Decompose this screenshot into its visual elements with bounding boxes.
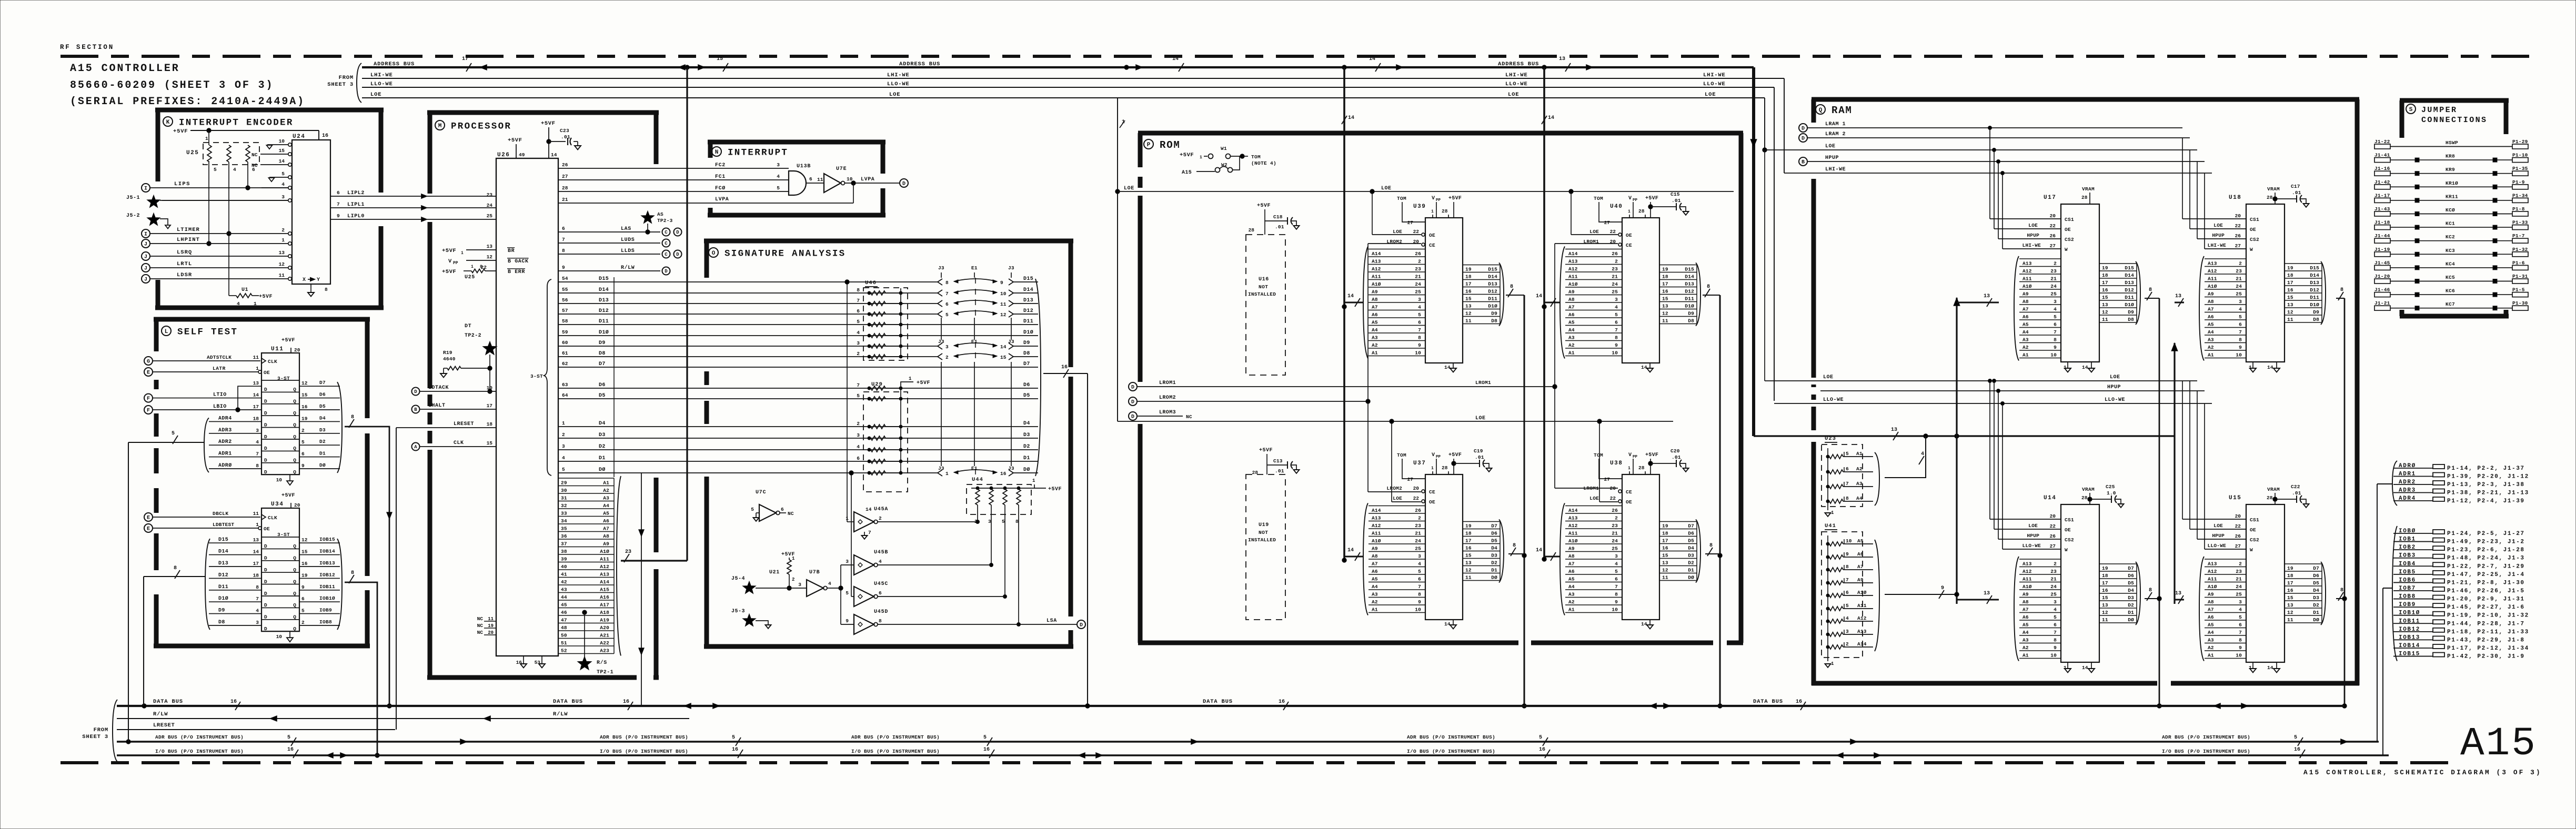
svg-text:12: 12	[2287, 309, 2293, 315]
svg-text:19: 19	[1662, 523, 1668, 529]
svg-text:6: 6	[879, 590, 882, 596]
svg-text:2: 2	[1846, 641, 1849, 647]
svg-text:14: 14	[1444, 365, 1451, 370]
svg-text:19: 19	[2287, 565, 2293, 571]
svg-text:A7: A7	[1857, 564, 1864, 570]
svg-text:A3: A3	[2022, 337, 2029, 342]
svg-text:DØ: DØ	[319, 462, 326, 468]
svg-text:4: 4	[256, 439, 259, 445]
svg-text:2: 2	[792, 577, 794, 582]
svg-text:1: 1	[1200, 155, 1202, 160]
svg-text:Q: Q	[293, 399, 296, 405]
svg-text:U23: U23	[1825, 436, 1836, 442]
svg-text:Q: Q	[293, 446, 296, 451]
svg-text:A14: A14	[1372, 508, 1381, 513]
svg-text:4: 4	[1615, 304, 1618, 310]
svg-text:2: 2	[857, 351, 860, 357]
svg-text:D1: D1	[2128, 610, 2134, 615]
svg-text:11: 11	[488, 616, 494, 622]
svg-text:AS: AS	[657, 211, 663, 217]
svg-text:23: 23	[2236, 569, 2242, 574]
svg-text:19: 19	[2102, 265, 2108, 271]
svg-text:LOE: LOE	[1124, 186, 1134, 191]
svg-text:2: 2	[1418, 258, 1421, 264]
svg-text:C18: C18	[1273, 214, 1283, 220]
svg-text:D7: D7	[599, 361, 606, 367]
svg-text:D11: D11	[2310, 295, 2319, 300]
svg-text:8: 8	[1846, 496, 1849, 501]
svg-text:58: 58	[562, 318, 568, 324]
svg-text:46: 46	[561, 610, 567, 615]
svg-text:TOM: TOM	[1397, 452, 1406, 458]
svg-text:19: 19	[2102, 565, 2108, 571]
svg-text:P1-49, P2-23, J1-2: P1-49, P2-23, J1-2	[2447, 539, 2525, 545]
svg-text:8: 8	[879, 618, 882, 624]
svg-text:28: 28	[1442, 208, 1448, 214]
svg-text:23: 23	[2050, 569, 2057, 574]
svg-text:IOB9: IOB9	[319, 608, 332, 613]
svg-text:8: 8	[1418, 335, 1421, 340]
svg-text:IOB1Ø: IOB1Ø	[319, 595, 335, 601]
svg-text:15: 15	[717, 56, 723, 62]
svg-text:A2: A2	[2022, 645, 2029, 651]
svg-text:22: 22	[2050, 523, 2056, 529]
svg-text:2: 2	[301, 428, 305, 433]
svg-text:3: 3	[857, 340, 860, 346]
svg-text:DØ: DØ	[1023, 467, 1030, 473]
svg-text:3: 3	[846, 559, 849, 564]
svg-text:14: 14	[2267, 365, 2273, 370]
svg-text:D1Ø: D1Ø	[218, 595, 228, 602]
svg-text:8: 8	[351, 414, 354, 420]
svg-text:3: 3	[2054, 599, 2057, 605]
svg-text:L: L	[165, 329, 168, 335]
svg-text:5: 5	[172, 431, 175, 437]
svg-text:TP2-1: TP2-1	[597, 670, 613, 675]
svg-text:6: 6	[1846, 590, 1849, 595]
svg-text:D: D	[665, 269, 668, 274]
svg-text:1: 1	[1431, 209, 1434, 214]
svg-text:A7: A7	[1568, 304, 1575, 310]
svg-text:12: 12	[1465, 311, 1472, 317]
svg-text:16: 16	[2102, 287, 2108, 293]
svg-text:15: 15	[301, 549, 308, 555]
svg-text:7: 7	[868, 530, 871, 535]
svg-text:A12: A12	[600, 564, 609, 570]
svg-text:20: 20	[1413, 486, 1420, 491]
svg-text:ADRØ: ADRØ	[218, 462, 232, 469]
svg-text:D: D	[1131, 385, 1134, 391]
svg-text:23: 23	[1612, 266, 1618, 272]
svg-text:A9: A9	[1372, 545, 1378, 551]
svg-text:A1: A1	[2022, 352, 2029, 358]
svg-text:63: 63	[562, 382, 568, 388]
svg-text:FROM: FROM	[94, 727, 108, 733]
svg-text:14: 14	[866, 507, 872, 512]
svg-text:10: 10	[1612, 606, 1618, 612]
svg-text:D9: D9	[1491, 311, 1497, 317]
svg-text:KR9: KR9	[2446, 167, 2455, 173]
svg-text:20: 20	[1610, 239, 1616, 245]
svg-text:I/O BUS (P/O INSTRUMENT BUS): I/O BUS (P/O INSTRUMENT BUS)	[155, 749, 244, 754]
svg-text:D13: D13	[1023, 298, 1033, 304]
svg-text:13: 13	[1559, 56, 1565, 62]
svg-text:11: 11	[1662, 575, 1668, 581]
svg-text:3: 3	[1846, 629, 1849, 634]
svg-text:P1-43, P2-29, J1-8: P1-43, P2-29, J1-8	[2447, 637, 2525, 643]
svg-text:A1: A1	[2022, 652, 2029, 658]
svg-text:V: V	[448, 258, 452, 265]
svg-text:LRAM 2: LRAM 2	[1825, 132, 1846, 137]
svg-text:D: D	[264, 614, 267, 620]
svg-text:A8: A8	[2208, 599, 2214, 605]
svg-text:2: 2	[2054, 561, 2057, 567]
svg-text:28: 28	[2267, 195, 2273, 200]
svg-text:.01: .01	[2292, 190, 2301, 196]
svg-text:4: 4	[828, 581, 831, 587]
svg-text:D3: D3	[2313, 595, 2319, 601]
svg-text:15: 15	[1662, 553, 1668, 559]
svg-text:LDBTEST: LDBTEST	[213, 522, 234, 528]
svg-text:10: 10	[279, 138, 285, 144]
svg-text:E: E	[147, 370, 150, 376]
svg-text:D8: D8	[1023, 351, 1030, 357]
svg-text:6: 6	[301, 596, 305, 602]
svg-text:7: 7	[857, 298, 860, 304]
svg-text:6: 6	[857, 456, 860, 461]
svg-text:D6: D6	[2128, 573, 2134, 579]
svg-text:+5VF: +5VF	[442, 269, 456, 275]
svg-text:14: 14	[2082, 665, 2088, 671]
svg-text:A11: A11	[600, 557, 609, 562]
svg-text:LOE: LOE	[2028, 523, 2038, 529]
svg-text:E: E	[147, 515, 150, 521]
svg-text:A12: A12	[2208, 268, 2217, 274]
svg-text:11: 11	[279, 272, 285, 278]
svg-text:7: 7	[1418, 584, 1421, 590]
svg-text:A21: A21	[600, 633, 609, 639]
svg-text:I/O BUS (P/O INSTRUMENT BUS): I/O BUS (P/O INSTRUMENT BUS)	[1407, 749, 1495, 754]
svg-text:P1-23, P2-6, J1-28: P1-23, P2-6, J1-28	[2447, 547, 2525, 553]
svg-text:LUDS: LUDS	[621, 237, 635, 243]
svg-text:U24: U24	[293, 134, 305, 140]
svg-text:U45C: U45C	[874, 581, 888, 587]
svg-text:5: 5	[945, 312, 949, 318]
svg-text:D12: D12	[218, 572, 228, 578]
svg-text:D15: D15	[1685, 267, 1694, 272]
svg-text:20: 20	[2050, 513, 2056, 519]
svg-text:D3: D3	[599, 432, 606, 438]
svg-text:22: 22	[2050, 223, 2056, 229]
svg-text:U11: U11	[271, 346, 284, 352]
svg-text:KR1Ø: KR1Ø	[2446, 180, 2458, 186]
svg-text:28: 28	[2267, 495, 2273, 501]
svg-text:U44: U44	[972, 477, 983, 483]
svg-text:26: 26	[1415, 508, 1421, 513]
svg-text:ADR BUS (P/O INSTRUMENT BUS): ADR BUS (P/O INSTRUMENT BUS)	[851, 734, 940, 740]
svg-text:A15: A15	[2460, 721, 2537, 766]
svg-text:D2: D2	[1023, 444, 1030, 450]
svg-text:D1: D1	[319, 451, 326, 457]
svg-text:CS1: CS1	[2250, 517, 2259, 523]
svg-text:D1: D1	[1688, 568, 1694, 573]
svg-text:SELF TEST: SELF TEST	[177, 327, 238, 337]
svg-text:LOE: LOE	[889, 92, 900, 98]
svg-text:R19: R19	[443, 350, 452, 356]
svg-text:A1Ø: A1Ø	[1857, 590, 1867, 595]
svg-text:R/LW: R/LW	[621, 265, 635, 271]
svg-text:14: 14	[1348, 115, 1354, 121]
svg-text:ADR2: ADR2	[218, 439, 232, 445]
svg-text:14: 14	[1369, 56, 1375, 62]
svg-text:NC: NC	[477, 623, 484, 629]
svg-text:14: 14	[1444, 621, 1451, 627]
svg-text:14: 14	[551, 152, 557, 158]
svg-text:A1Ø: A1Ø	[1372, 538, 1381, 544]
svg-text:D8: D8	[1688, 318, 1694, 324]
svg-text:SIGNATURE ANALYSIS: SIGNATURE ANALYSIS	[724, 248, 846, 259]
svg-text:23: 23	[1415, 523, 1421, 529]
svg-text:8: 8	[1015, 519, 1019, 524]
svg-text:A8: A8	[1568, 297, 1575, 302]
svg-text:D: D	[264, 458, 267, 463]
svg-text:27: 27	[1407, 220, 1414, 226]
svg-text:LOE: LOE	[2213, 223, 2223, 228]
svg-text:8: 8	[256, 584, 259, 590]
svg-text:A23: A23	[600, 648, 609, 654]
svg-text:NC: NC	[477, 616, 484, 622]
svg-text:13: 13	[2287, 602, 2293, 608]
svg-text:A5: A5	[1857, 538, 1864, 544]
svg-text:A7: A7	[2022, 306, 2029, 312]
svg-text:LLO-WE: LLO-WE	[1505, 81, 1528, 87]
svg-text:13: 13	[253, 380, 259, 386]
svg-text:CS2: CS2	[2250, 237, 2259, 242]
svg-text:+5VF: +5VF	[1448, 196, 1462, 201]
svg-text:ADR BUS (P/O INSTRUMENT BUS): ADR BUS (P/O INSTRUMENT BUS)	[155, 734, 244, 740]
svg-text:3-ST: 3-ST	[530, 373, 543, 379]
svg-text:LROM1: LROM1	[1583, 239, 1599, 245]
svg-text:LOE: LOE	[1589, 496, 1599, 501]
svg-text:D: D	[264, 591, 267, 597]
svg-text:PP: PP	[1633, 455, 1638, 459]
svg-text:LHI-WE: LHI-WE	[887, 72, 910, 78]
svg-text:38: 38	[561, 549, 567, 554]
svg-text:8: 8	[1418, 591, 1421, 597]
svg-text:25: 25	[2050, 291, 2057, 297]
svg-text:V: V	[1628, 196, 1632, 201]
svg-text:18: 18	[2287, 272, 2293, 278]
svg-text:28: 28	[2081, 195, 2088, 200]
svg-text:15: 15	[2287, 295, 2293, 300]
svg-text:25: 25	[2050, 591, 2057, 597]
svg-text:D15: D15	[2125, 265, 2134, 271]
svg-text:10: 10	[2236, 352, 2242, 358]
svg-text:24: 24	[2050, 284, 2057, 289]
svg-text:4: 4	[1418, 304, 1421, 310]
svg-text:F: F	[147, 396, 150, 402]
svg-text:14: 14	[1548, 115, 1554, 121]
svg-text:CE: CE	[1429, 489, 1435, 495]
svg-text:6: 6	[1418, 319, 1421, 325]
svg-text:D14: D14	[2310, 272, 2319, 278]
svg-text:U7C: U7C	[756, 490, 766, 496]
svg-text:A13: A13	[1568, 515, 1578, 521]
svg-text:INTERRUPT ENCODER: INTERRUPT ENCODER	[179, 117, 294, 128]
svg-text:33: 33	[561, 511, 567, 517]
svg-text:LHPINT: LHPINT	[177, 237, 200, 243]
svg-text:Q: Q	[293, 543, 296, 549]
svg-text:28: 28	[1638, 465, 1645, 471]
svg-text:3: 3	[1418, 297, 1421, 302]
svg-text:D7: D7	[2313, 565, 2319, 571]
svg-text:45: 45	[561, 602, 567, 608]
svg-text:9: 9	[1941, 585, 1944, 591]
svg-text:5: 5	[1539, 735, 1542, 741]
svg-text:Y: Y	[317, 277, 320, 283]
svg-text:8: 8	[2340, 588, 2343, 593]
svg-text:ROM: ROM	[1160, 139, 1181, 151]
svg-text:LOE: LOE	[1393, 496, 1402, 501]
svg-text:D: D	[1131, 400, 1134, 406]
svg-text:W: W	[2250, 247, 2253, 252]
svg-text:LHI-WE: LHI-WE	[1703, 72, 1726, 78]
svg-text:I/O BUS (P/O INSTRUMENT BUS): I/O BUS (P/O INSTRUMENT BUS)	[600, 749, 688, 754]
svg-text:1: 1	[1032, 478, 1035, 483]
svg-text:DATA BUS: DATA BUS	[553, 699, 583, 705]
svg-text:16: 16	[301, 404, 308, 410]
svg-text:16: 16	[2102, 588, 2108, 593]
svg-text:5: 5	[1615, 312, 1618, 318]
svg-text:J5-4: J5-4	[731, 576, 745, 582]
svg-text:A15: A15	[600, 587, 609, 593]
svg-text:A1: A1	[1568, 606, 1575, 612]
svg-text:LHI-WE: LHI-WE	[370, 72, 393, 78]
svg-text:C: C	[665, 252, 668, 257]
svg-text:12: 12	[2287, 610, 2293, 615]
svg-text:12: 12	[301, 537, 308, 543]
svg-text:25: 25	[1612, 545, 1618, 551]
svg-text:16: 16	[1061, 365, 1068, 370]
svg-text:D1: D1	[2313, 610, 2319, 615]
svg-text:6: 6	[1418, 576, 1421, 582]
svg-text:LLDS: LLDS	[621, 248, 635, 254]
svg-text:P1-48, P2-24, J1-3: P1-48, P2-24, J1-3	[2447, 555, 2525, 562]
svg-text:A6: A6	[2022, 314, 2029, 320]
svg-text:D14: D14	[1023, 287, 1033, 293]
svg-text:10: 10	[276, 634, 283, 640]
svg-text:P1-38, P2-21, J1-13: P1-38, P2-21, J1-13	[2447, 490, 2529, 497]
svg-text:48: 48	[561, 625, 567, 631]
svg-text:22: 22	[1610, 496, 1616, 501]
svg-text:52: 52	[561, 648, 567, 654]
svg-text:D: D	[264, 410, 267, 416]
svg-text:U29: U29	[871, 381, 883, 388]
svg-text:F: F	[147, 408, 150, 414]
svg-text:A13: A13	[2208, 561, 2217, 567]
svg-text:24: 24	[1612, 538, 1618, 544]
svg-text:LOE: LOE	[1381, 186, 1392, 191]
svg-text:43: 43	[561, 587, 567, 593]
svg-text:2: 2	[879, 515, 882, 521]
svg-text:1: 1	[792, 556, 795, 561]
svg-text:60: 60	[562, 340, 568, 346]
svg-text:CE: CE	[1626, 242, 1632, 248]
svg-text:CLK: CLK	[454, 440, 464, 446]
svg-text:10: 10	[1415, 606, 1421, 612]
svg-text:A9: A9	[2208, 291, 2214, 297]
svg-text:D9: D9	[1023, 340, 1030, 346]
svg-text:LHI-WE: LHI-WE	[2022, 242, 2041, 248]
svg-text:J5-1: J5-1	[126, 195, 140, 201]
svg-text:13: 13	[2102, 302, 2108, 308]
svg-text:RF SECTION: RF SECTION	[60, 44, 114, 51]
svg-text:LIPL2: LIPL2	[347, 190, 365, 196]
svg-text:A6: A6	[1372, 312, 1378, 318]
svg-text:E1: E1	[971, 339, 978, 345]
svg-text:A1Ø: A1Ø	[1568, 538, 1578, 544]
svg-text:A6: A6	[1372, 569, 1378, 574]
svg-text:LROM2: LROM2	[1386, 486, 1402, 491]
svg-text:VRAM: VRAM	[2267, 186, 2280, 192]
svg-text:23: 23	[2050, 268, 2057, 274]
svg-text:A11: A11	[2208, 576, 2217, 582]
svg-text:D3: D3	[319, 427, 326, 433]
svg-text:A6: A6	[603, 518, 609, 524]
svg-text:6: 6	[2239, 321, 2242, 327]
svg-text:A12: A12	[2208, 569, 2217, 574]
svg-text:A11: A11	[2022, 276, 2032, 281]
svg-text:51: 51	[561, 640, 567, 646]
svg-text:D12: D12	[1488, 289, 1497, 295]
svg-text:D12: D12	[1023, 308, 1033, 314]
svg-text:PP: PP	[453, 261, 458, 266]
svg-text:A2: A2	[1568, 342, 1575, 348]
svg-text:2: 2	[945, 355, 949, 360]
svg-text:26: 26	[1415, 251, 1421, 257]
svg-text:U17: U17	[2044, 195, 2056, 201]
svg-text:D: D	[264, 555, 267, 561]
svg-text:A2: A2	[1568, 599, 1575, 605]
svg-text:23: 23	[487, 192, 493, 198]
svg-text:24: 24	[1612, 281, 1618, 287]
svg-text:31: 31	[561, 496, 567, 501]
svg-text:OE: OE	[1429, 499, 1435, 505]
svg-text:D: D	[264, 567, 267, 573]
svg-text:6: 6	[301, 451, 305, 457]
svg-text:10: 10	[487, 385, 493, 391]
svg-text:A5: A5	[1568, 319, 1575, 325]
svg-text:4: 4	[857, 444, 860, 450]
svg-text:D: D	[1802, 126, 1805, 132]
svg-text:K: K	[166, 119, 170, 126]
svg-text:13: 13	[2175, 591, 2181, 597]
svg-text:OE: OE	[2065, 527, 2071, 533]
svg-text:11: 11	[1465, 575, 1472, 581]
svg-text:15: 15	[2287, 595, 2293, 601]
svg-text:5: 5	[301, 608, 305, 614]
svg-text:OE: OE	[1626, 499, 1632, 505]
svg-text:A14: A14	[1857, 641, 1867, 647]
svg-text:DT: DT	[465, 323, 471, 329]
svg-text:CS2: CS2	[2065, 237, 2074, 242]
svg-text:KC3: KC3	[2446, 248, 2455, 254]
svg-text:A7: A7	[2022, 606, 2029, 612]
svg-text:26: 26	[2235, 233, 2241, 239]
svg-text:5: 5	[2239, 314, 2242, 320]
svg-text:24: 24	[2236, 284, 2242, 289]
svg-text:D2: D2	[2313, 602, 2319, 608]
